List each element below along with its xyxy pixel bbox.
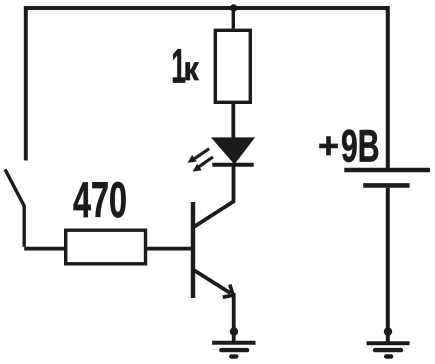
svg-text:+: + [318, 125, 339, 166]
svg-text:470: 470 [73, 172, 127, 228]
svg-text:к: к [184, 50, 199, 87]
svg-text:9В: 9В [341, 120, 380, 171]
